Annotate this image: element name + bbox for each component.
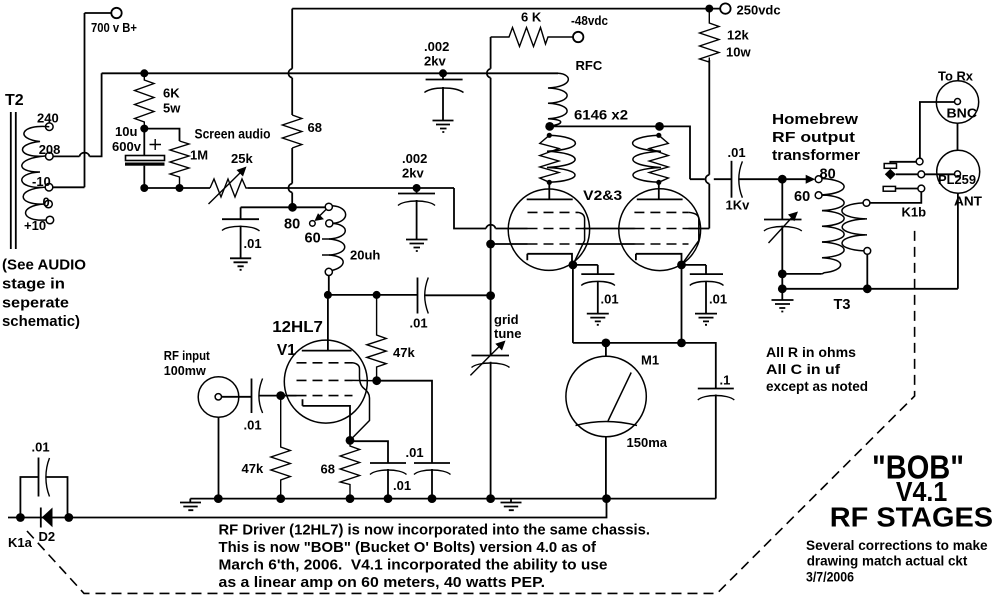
wire V2 plate lead bbox=[548, 182, 550, 199]
V1 row1 elbow to cathode bbox=[350, 363, 370, 441]
node T3 ground rail bbox=[778, 284, 787, 293]
switch pole + wiper arrow bbox=[310, 210, 326, 227]
svg-text:schematic): schematic) bbox=[2, 313, 80, 330]
V2 row1 elbow to cathode bbox=[573, 212, 585, 265]
inductor 20uh bbox=[329, 223, 345, 270]
node V1 plate rail left bbox=[324, 291, 332, 299]
T3 secondary terminal top bbox=[863, 200, 870, 207]
svg-text:.01: .01 bbox=[410, 316, 428, 331]
svg-text:RFC: RFC bbox=[576, 58, 603, 73]
wire output ground rail bbox=[782, 194, 958, 289]
V1 plate bar bbox=[302, 350, 352, 352]
capacitor .01 1Kv (output coupling) bbox=[732, 161, 783, 198]
V1 cathode bar bbox=[303, 399, 351, 440]
terminal 208 tap bbox=[46, 152, 54, 160]
T3 primary winding bbox=[821, 179, 844, 274]
svg-text:.01: .01 bbox=[393, 478, 411, 493]
transformer T2 core bbox=[11, 112, 16, 249]
svg-text:BNC: BNC bbox=[947, 106, 978, 121]
svg-text:1Kv: 1Kv bbox=[726, 198, 751, 213]
capacitor .002 2kv (screen rail) bbox=[398, 188, 435, 239]
wire RF connector shell to ground bbox=[218, 417, 220, 498]
node 47k screen junction bbox=[372, 376, 381, 385]
node 6K top bbox=[140, 69, 148, 77]
wire hop 12k line over plate wire bbox=[706, 175, 710, 184]
arrow 25k wiper bbox=[209, 167, 247, 205]
svg-text:2kv: 2kv bbox=[402, 166, 424, 181]
ground (screen .002) bbox=[406, 240, 428, 252]
svg-text:(See AUDIO: (See AUDIO bbox=[2, 257, 86, 274]
svg-text:6K: 6K bbox=[163, 86, 180, 101]
node meter top bbox=[602, 339, 611, 348]
wire plate feed to switch and bypass bbox=[241, 206, 326, 208]
dashed enclosure border bbox=[27, 227, 915, 593]
svg-text:68: 68 bbox=[321, 462, 335, 477]
svg-text:12k: 12k bbox=[727, 28, 749, 43]
svg-text:.01: .01 bbox=[728, 145, 746, 160]
wire -10 tap to B+ line bbox=[53, 186, 85, 188]
svg-text:D2: D2 bbox=[39, 529, 56, 544]
T3 primary terminal 60 bbox=[815, 192, 822, 199]
node V2 cathode bbox=[569, 261, 578, 270]
capacitor .002 2kv (plate rail) bbox=[424, 73, 463, 120]
wire grid tune line bbox=[490, 296, 492, 499]
svg-text:150ma: 150ma bbox=[627, 435, 668, 450]
wire 12k down to screens (hop over plate wire) bbox=[708, 60, 710, 229]
node 1M bottom bbox=[176, 184, 184, 192]
V2 cathode bar bbox=[527, 254, 572, 265]
wire V2 cathode to bypass bbox=[573, 264, 598, 266]
svg-text:transformer: transformer bbox=[772, 148, 860, 164]
svg-text:RF input: RF input bbox=[164, 348, 211, 363]
node 10u top bbox=[140, 125, 148, 133]
svg-text:2kv: 2kv bbox=[424, 54, 446, 69]
wire V3 plate lead bbox=[658, 182, 660, 199]
ground (mid rail) bbox=[501, 499, 522, 511]
svg-text:T2: T2 bbox=[5, 92, 24, 109]
switch 80 contact bbox=[325, 203, 332, 210]
wire audio rail y=188 bbox=[144, 187, 454, 189]
capacitor 10u 600v electrolytic bbox=[125, 129, 165, 188]
svg-text:6146 x2: 6146 x2 bbox=[574, 107, 628, 123]
capacitor tune (variable) bbox=[764, 179, 802, 289]
V1 screen exit to node bbox=[353, 379, 377, 381]
wire cathode to bypass cap bbox=[350, 441, 388, 463]
svg-text:10u: 10u bbox=[115, 124, 137, 139]
svg-text:.002: .002 bbox=[424, 39, 449, 54]
capacitor grid tune (variable) bbox=[470, 341, 509, 376]
T3 secondary stubs bbox=[858, 219, 867, 235]
connector BNC bbox=[936, 81, 978, 123]
inductor 20uh stubs bbox=[322, 239, 330, 255]
wire V1 plate lead bbox=[327, 295, 329, 351]
inductor RFC bbox=[548, 73, 568, 126]
svg-text:+10: +10 bbox=[24, 218, 46, 233]
node V3 cathode rail bbox=[677, 339, 686, 348]
V3 cathode bar bbox=[636, 254, 682, 265]
capacitor .01 (input coupling) bbox=[252, 379, 281, 414]
ground (plate bypass) bbox=[230, 258, 251, 270]
svg-text:5w: 5w bbox=[163, 101, 181, 116]
wire hop in 208 wire bbox=[80, 153, 90, 157]
svg-text:10w: 10w bbox=[726, 45, 751, 60]
relay K1b armature diamond bbox=[885, 169, 918, 180]
resistor 6K 5w bbox=[135, 73, 154, 128]
svg-text:V2&3: V2&3 bbox=[583, 187, 622, 203]
svg-text:6 K: 6 K bbox=[521, 10, 542, 25]
V3 row1 elbow to cathode bbox=[682, 212, 699, 265]
svg-text:except as noted: except as noted bbox=[766, 379, 868, 394]
T3 primary terminal 80 bbox=[815, 176, 822, 183]
svg-text:.002: .002 bbox=[402, 151, 427, 166]
capacitor .01 (V2 cathode) bbox=[581, 265, 615, 314]
wire V3 cathode to bypass bbox=[682, 264, 707, 266]
wire B+ vertical x=84.5 bbox=[84, 13, 86, 187]
resistor 47k (screen dropper) bbox=[367, 295, 386, 381]
svg-text:.01: .01 bbox=[709, 292, 727, 307]
inductor link 80-60 bbox=[332, 206, 345, 224]
ground (V2 cathode byp) bbox=[587, 314, 609, 325]
tube V1 12HL7 envelope bbox=[284, 340, 367, 423]
svg-text:RF STAGES: RF STAGES bbox=[830, 502, 993, 533]
ground (.002 top) bbox=[433, 121, 454, 133]
node V3 cathode bbox=[677, 261, 686, 270]
wire arrow into T3 80 tap bbox=[782, 175, 815, 184]
wire grid feed into V2 bbox=[491, 243, 528, 245]
svg-text:PL259: PL259 bbox=[938, 172, 976, 187]
polarity + mark bbox=[150, 139, 162, 150]
svg-text:M1: M1 bbox=[641, 353, 659, 368]
wire screen bypass run bbox=[377, 381, 432, 463]
meter M1 bbox=[566, 343, 646, 499]
switch 60 contact bbox=[326, 220, 333, 227]
wire hop at y=188 bbox=[288, 184, 292, 193]
capacitor .01 (V1 plate bypass) bbox=[222, 207, 260, 258]
svg-text:grid: grid bbox=[494, 312, 519, 327]
resistor 6 K (bias feed) bbox=[491, 28, 573, 47]
switch coil bottom terminal bbox=[325, 268, 332, 275]
T3 secondary winding bbox=[842, 203, 865, 251]
capacitor .01 (interstage coupling) bbox=[418, 278, 491, 314]
tube V2 envelope bbox=[508, 189, 589, 270]
V3 grid row3 dashes bbox=[635, 243, 689, 245]
wire hop at y=73.3 bbox=[288, 69, 292, 78]
svg-text:25k: 25k bbox=[231, 151, 253, 166]
capacitor .01 (across K1a) bbox=[20, 458, 67, 518]
node 12k top bbox=[705, 5, 713, 13]
wire screen link V2-V3 bbox=[583, 228, 635, 230]
V1 beam grid (dashed row1) bbox=[297, 362, 353, 364]
suppressor V2 bottom node bbox=[547, 180, 552, 185]
node secondary ground bbox=[863, 284, 872, 293]
svg-text:All C in uf: All C in uf bbox=[766, 362, 841, 377]
svg-text:.1: .1 bbox=[720, 373, 731, 388]
svg-text:250vdc: 250vdc bbox=[737, 3, 781, 18]
V2 beam row1 dashes bbox=[528, 211, 579, 213]
node plate junction V2 bbox=[545, 122, 554, 131]
wire 208 tap to screen rail (hop over B+ line) bbox=[53, 73, 102, 156]
terminal -48vdc bbox=[573, 32, 583, 42]
suppressor V3 resistor bbox=[649, 135, 668, 182]
tube V3 envelope bbox=[619, 189, 701, 271]
svg-text:-10: -10 bbox=[32, 174, 51, 189]
svg-text:Homebrew: Homebrew bbox=[772, 112, 859, 128]
svg-text:47k: 47k bbox=[242, 461, 264, 476]
svg-text:240: 240 bbox=[37, 111, 59, 126]
suppressor V3: node bbox=[656, 133, 661, 138]
svg-text:All R in ohms: All R in ohms bbox=[766, 345, 856, 360]
capacitor .01 (cathode bypass) bbox=[370, 463, 407, 499]
svg-text:RF output: RF output bbox=[772, 130, 855, 146]
svg-text:0: 0 bbox=[43, 195, 50, 210]
svg-text:V1: V1 bbox=[277, 342, 296, 359]
node D2 left bbox=[16, 513, 25, 522]
svg-text:-48vdc: -48vdc bbox=[571, 13, 608, 28]
node plate junction V3 bbox=[655, 122, 664, 131]
relay K1b contact (to PL259) bbox=[918, 171, 925, 178]
capacitor .1 (cathode rail bypass) bbox=[698, 389, 735, 499]
resistor 1M bbox=[170, 141, 189, 188]
wire screen supply rail y=73.3 bbox=[102, 72, 558, 74]
resistor 47k (input) bbox=[271, 396, 290, 499]
wire plate bus bbox=[550, 126, 731, 179]
svg-text:208: 208 bbox=[39, 142, 61, 157]
wire BNC shell to PL259 shell bbox=[957, 123, 959, 150]
node grounds on rail bbox=[214, 494, 223, 503]
svg-text:ANT: ANT bbox=[954, 194, 982, 209]
node meter ground bbox=[602, 494, 611, 503]
node D2 right bbox=[64, 513, 73, 522]
svg-text:47k: 47k bbox=[393, 345, 415, 360]
ground (V3 cathode byp) bbox=[695, 314, 717, 325]
resistor 68 (V1 plate feed) bbox=[282, 115, 301, 148]
wire RF input to cap bbox=[222, 396, 252, 398]
connector RF input bbox=[198, 377, 239, 418]
svg-text:60: 60 bbox=[305, 231, 321, 247]
node grid line / coupling bbox=[486, 291, 495, 300]
svg-text:100mw: 100mw bbox=[164, 363, 207, 378]
node V1 input bbox=[276, 391, 285, 400]
transformer T2 winding bbox=[22, 126, 50, 220]
svg-text:.01: .01 bbox=[32, 440, 50, 455]
node 6146 grid feed bbox=[486, 240, 495, 249]
terminal 240 tap bbox=[46, 123, 54, 131]
relay K1b contact (to T3) bbox=[918, 185, 925, 192]
wire grid link V2-V3 bbox=[578, 243, 635, 245]
node V1 plate feed junction bbox=[288, 203, 297, 212]
capacitor .01 (V3 cathode) bbox=[690, 265, 724, 314]
relay K1b contact (to BNC) bbox=[916, 158, 923, 165]
svg-text:T3: T3 bbox=[834, 297, 851, 313]
svg-text:tune: tune bbox=[494, 326, 521, 341]
svg-text:20uh: 20uh bbox=[350, 248, 380, 263]
wire bias line x=490.6 (hop over screen rail) bbox=[490, 37, 492, 296]
svg-text:600v: 600v bbox=[112, 139, 142, 154]
svg-text:stage in: stage in bbox=[2, 276, 65, 293]
resistor 12k 10w bbox=[700, 9, 719, 62]
svg-text:.01: .01 bbox=[244, 418, 262, 433]
wire BNC line bbox=[920, 102, 954, 158]
V3 plate bar bbox=[637, 198, 683, 200]
T3 primary stubs bbox=[822, 195, 830, 258]
svg-text:K1b: K1b bbox=[902, 205, 927, 220]
wire screen feed corner to tubes bbox=[454, 188, 528, 229]
wire V1 ground rail bbox=[190, 498, 716, 500]
node V1 cathode bbox=[346, 436, 355, 445]
svg-text:as a linear amp on 60 meters,: as a linear amp on 60 meters, 40 watts P… bbox=[219, 574, 546, 591]
svg-text:This is now "BOB" (Bucket O' B: This is now "BOB" (Bucket O' Bolts) vers… bbox=[219, 539, 597, 556]
ground (T3) bbox=[772, 289, 794, 312]
svg-text:80: 80 bbox=[284, 217, 300, 233]
node .002 cap (y188 rail) bbox=[413, 184, 421, 192]
svg-text:.01: .01 bbox=[601, 292, 619, 307]
svg-text:Screen audio: Screen audio bbox=[195, 126, 271, 142]
resistor 68 (cathode) bbox=[340, 440, 359, 498]
svg-text:Several corrections to make: Several corrections to make bbox=[806, 538, 988, 553]
V1 control grid (dashed row3) bbox=[297, 395, 353, 397]
terminal 0 tap bbox=[45, 200, 53, 208]
wire 250vdc top rail bbox=[292, 8, 720, 10]
node tune cap top bbox=[778, 175, 787, 184]
wire hop screen feed over grid line bbox=[486, 225, 496, 229]
V3 row1 dashes bbox=[634, 211, 688, 213]
svg-text:12HL7: 12HL7 bbox=[272, 319, 323, 336]
node 10u bottom bbox=[140, 184, 148, 192]
V2 grid row3 dashes bbox=[528, 243, 579, 245]
svg-text:.01: .01 bbox=[406, 445, 424, 460]
wire keying line K1a bbox=[8, 499, 607, 518]
suppressor V2 coil bbox=[547, 135, 575, 182]
rheostat 25k bbox=[210, 179, 248, 197]
wire G1 feed into tube bbox=[281, 395, 297, 397]
suppressor V2: node bbox=[547, 133, 552, 138]
wire 10u top to 1M bbox=[144, 129, 179, 141]
terminal +10 tap bbox=[46, 216, 54, 224]
svg-text:drawing match actual ckt: drawing match actual ckt bbox=[807, 554, 968, 569]
svg-text:RF Driver (12HL7) is now incor: RF Driver (12HL7) is now incorporated in… bbox=[219, 522, 651, 539]
V3 screen row2 dashes bbox=[635, 228, 689, 230]
wire coil to V1 plate rail bbox=[328, 276, 417, 295]
wire T3 primary bottom bbox=[782, 273, 821, 275]
wire screen exit to 12k bbox=[689, 228, 710, 230]
svg-text:.01: .01 bbox=[244, 236, 262, 251]
wire PL259 line bbox=[925, 173, 955, 175]
T3 secondary terminal bottom bbox=[864, 248, 871, 255]
wire secondary out to relay bbox=[870, 192, 921, 203]
terminal 700v B+ bbox=[85, 8, 122, 18]
svg-text:60: 60 bbox=[794, 189, 810, 205]
capacitor .01 (screen bypass) bbox=[414, 463, 451, 499]
wire V1 supply drop x=292.2 (hops rails) bbox=[291, 9, 293, 208]
svg-text:March 6'th, 2006. V4.1 incorp: March 6'th, 2006. V4.1 incorporated the … bbox=[219, 557, 608, 574]
svg-text:seperate: seperate bbox=[2, 295, 69, 312]
svg-text:68: 68 bbox=[308, 120, 322, 135]
wire T3 60 tap stub bbox=[822, 194, 827, 196]
relay K1b fixed contact upper rect bbox=[884, 162, 916, 169]
terminal -10 tap bbox=[45, 183, 53, 191]
node plate rail 47k bbox=[373, 291, 381, 299]
node .002 cap (y73 rail) bbox=[439, 69, 447, 77]
V1 screen grid (dashed row2) bbox=[297, 379, 353, 381]
terminal 250vdc bbox=[720, 3, 730, 13]
wire secondary bottom to ground rail bbox=[866, 254, 868, 288]
V2 plate bar bbox=[527, 198, 573, 200]
diode D2 bbox=[41, 508, 53, 528]
svg-text:3/7/2006: 3/7/2006 bbox=[806, 570, 854, 585]
ground (left of RF input) bbox=[180, 499, 201, 511]
V2 screen row2 dashes bbox=[528, 228, 584, 230]
suppressor V2 resistor bbox=[540, 135, 559, 182]
wire hop bias line at y=73.3 bbox=[487, 69, 491, 78]
svg-text:700 v B+: 700 v B+ bbox=[91, 20, 137, 35]
wire cathode rail bbox=[573, 265, 716, 389]
svg-text:K1a: K1a bbox=[8, 535, 33, 550]
suppressor V3 coil (mirrored) bbox=[633, 135, 661, 182]
suppressor V3 bottom node bbox=[656, 180, 661, 185]
svg-text:1M: 1M bbox=[190, 148, 208, 163]
relay K1b fixed contact lower rect bbox=[883, 186, 918, 191]
svg-text:To Rx: To Rx bbox=[938, 69, 974, 84]
connector PL259 bbox=[937, 150, 980, 193]
node tune cap bottom bbox=[778, 270, 787, 279]
